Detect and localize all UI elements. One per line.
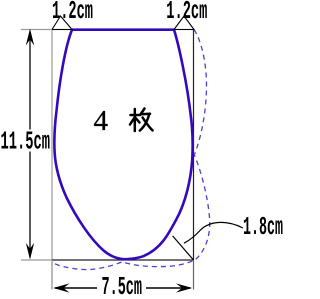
svg-text:1.2cm: 1.2cm xyxy=(166,0,207,26)
11.5cm dimension line upper segment xyxy=(29,33,31,130)
svg-text:1.8cm: 1.8cm xyxy=(243,212,283,242)
7.5cm dimension line right segment xyxy=(146,287,190,289)
7.5cm left arrowhead xyxy=(53,283,69,292)
solid blue pattern outline curve xyxy=(54,30,192,260)
right 1.2cm marker triangle xyxy=(174,16,194,30)
left 1.2cm marker triangle xyxy=(52,16,72,30)
7.5cm right arrowhead xyxy=(176,283,192,292)
top-left extension line xyxy=(21,29,52,31)
rectangle bottom edge xyxy=(52,259,194,261)
left bottom extension line xyxy=(51,260,53,290)
bottom-left extension line xyxy=(21,259,52,261)
rectangle right edge xyxy=(193,30,195,261)
rectangle left edge xyxy=(51,30,53,261)
dashed blue fold-over curve xyxy=(53,30,210,270)
1.8cm tick line from corner to curve xyxy=(173,236,194,260)
11.5cm up arrowhead xyxy=(26,29,34,46)
svg-text:4: 4 xyxy=(94,105,109,137)
11.5cm dimension line lower segment xyxy=(29,152,31,258)
svg-text:1.2cm: 1.2cm xyxy=(52,0,93,26)
label kanji mai (sheet counter) drawn as strokes xyxy=(130,109,153,132)
7.5cm dimension line left segment xyxy=(55,287,97,289)
11.5cm down arrowhead xyxy=(26,243,34,260)
rectangle top edge xyxy=(52,29,194,31)
svg-text:7.5cm: 7.5cm xyxy=(102,272,143,299)
svg-text:11.5cm: 11.5cm xyxy=(1,127,51,157)
right bottom extension line xyxy=(193,260,195,290)
1.8cm leader curve xyxy=(184,222,243,243)
